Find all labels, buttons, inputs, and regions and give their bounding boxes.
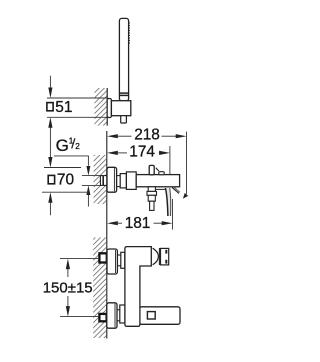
dim 150±15 extension lines <box>60 258 99 260</box>
top nipple <box>99 253 106 262</box>
lever handle (side) <box>149 165 154 174</box>
svg-text:2: 2 <box>75 142 80 151</box>
dim 218 <box>107 134 118 138</box>
body bottom lip <box>156 188 165 190</box>
svg-text:70: 70 <box>57 172 74 189</box>
svg-text:150±15: 150±15 <box>43 279 93 296</box>
dim 51 extension lines <box>47 97 107 99</box>
wall edge line (top) <box>106 88 108 126</box>
dim 51 arrow top <box>49 76 51 89</box>
bottom nipple <box>99 314 106 321</box>
G1/2 nipple (side view) <box>100 176 106 186</box>
bottom escutcheon <box>107 303 117 328</box>
diverter square <box>147 312 155 319</box>
wall edge line (middle+bottom) <box>106 131 108 339</box>
218 right extension with pointer <box>186 132 188 195</box>
bracket body <box>111 101 130 116</box>
union nut <box>120 174 126 188</box>
spout outlet diagonal <box>172 188 179 194</box>
G1/2 arrow up <box>86 185 90 195</box>
label square 70 <box>48 175 54 183</box>
bottom union nut <box>120 305 125 323</box>
union neck <box>117 175 121 177</box>
G1/2 leader underline <box>54 156 89 166</box>
181 right extension <box>172 199 174 230</box>
wall hatch (top, hand shower holder) <box>95 88 108 126</box>
svg-text:218: 218 <box>134 127 160 144</box>
wall hatch (middle, side view) <box>94 155 107 204</box>
hand shower handle <box>119 18 128 101</box>
dim 150±15 line + arrows <box>67 268 69 278</box>
handle band <box>119 92 128 94</box>
svg-text:174: 174 <box>129 143 155 160</box>
top escutcheon <box>107 249 117 274</box>
hose connector below body <box>148 187 155 192</box>
valve body <box>126 172 136 190</box>
svg-text:G: G <box>56 136 69 155</box>
spray nozzle dots <box>128 23 130 44</box>
G1/2 reference lines (nipple edges) <box>82 175 100 177</box>
escutcheon (side view) <box>107 167 117 192</box>
top union nut <box>121 252 125 268</box>
spout end cap <box>161 248 169 265</box>
dim 70 extension lines <box>44 167 81 169</box>
bottom union neck <box>117 309 120 311</box>
dim 181 <box>107 221 118 225</box>
label square 51 <box>47 103 53 111</box>
main vertical body + spout arm <box>125 247 151 327</box>
bracket escutcheon <box>107 99 111 118</box>
dim 70 arrow bottom <box>48 192 52 203</box>
wall hatch (bottom, front view) <box>93 238 107 339</box>
dim 174 <box>107 151 118 155</box>
diverter bump <box>159 172 164 175</box>
bottom outlet box <box>139 307 180 325</box>
main body (side view) <box>136 175 179 187</box>
svg-text:181: 181 <box>125 215 151 232</box>
spout end curve <box>153 248 159 265</box>
174 right extension <box>169 146 171 175</box>
hanging hose curve <box>165 188 170 216</box>
lever tick <box>156 168 159 171</box>
hose stub below bracket <box>121 116 127 123</box>
dim 51 arrow bottom / chain to 70 <box>49 127 51 159</box>
top union neck <box>117 254 120 256</box>
G1/2 arrow down <box>86 166 90 176</box>
svg-text:51: 51 <box>55 99 72 116</box>
